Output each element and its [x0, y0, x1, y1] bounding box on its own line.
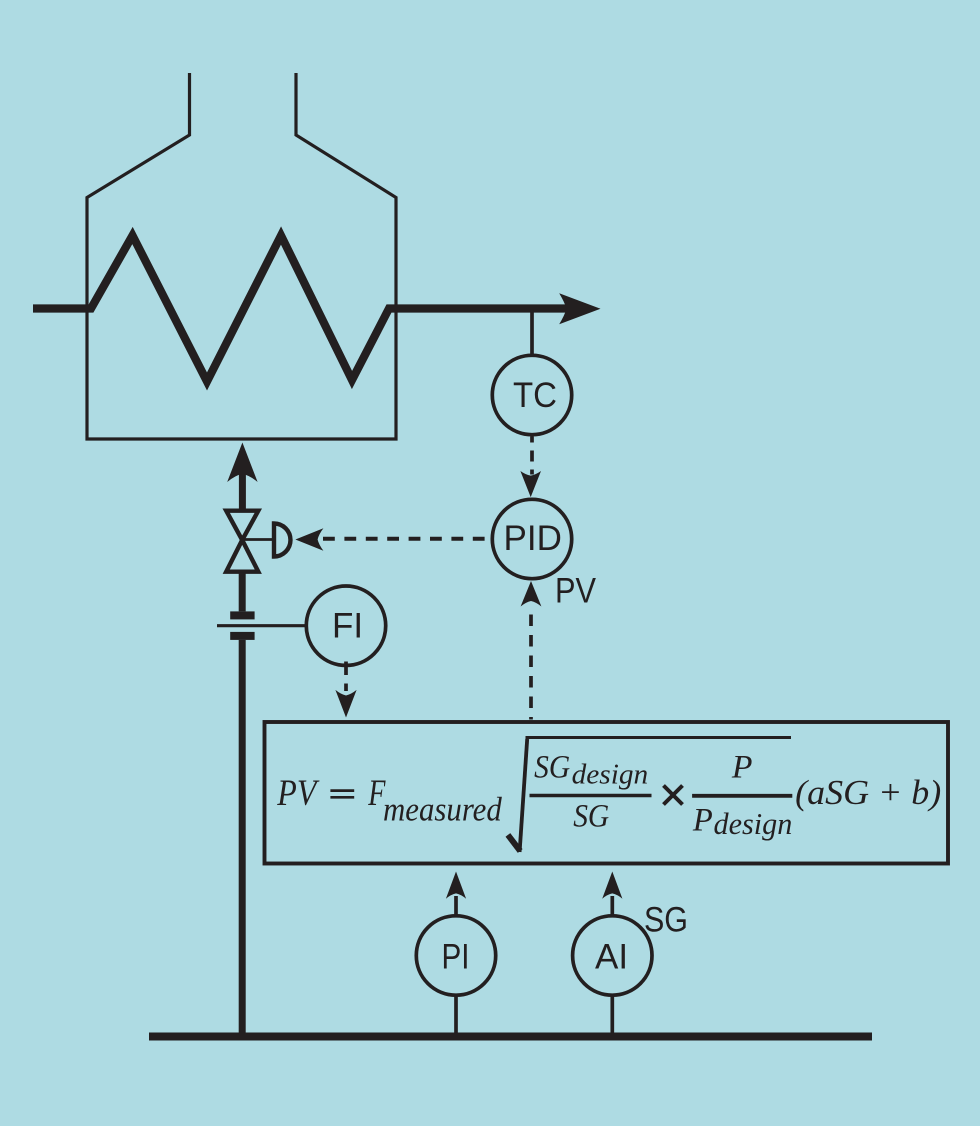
- orifice tap line to FI: [217, 624, 307, 627]
- svg-text:SG: SG: [573, 798, 609, 834]
- multiplication sign: [664, 786, 683, 805]
- instrument PID: [492, 499, 571, 578]
- bottom header pipe: [149, 1033, 872, 1041]
- pipe valve to orifice: [239, 572, 246, 611]
- svg-text:design: design: [714, 806, 793, 841]
- heater coil: [33, 236, 567, 382]
- wire AI to header: [610, 995, 614, 1036]
- equation box: [265, 722, 949, 864]
- dashed signal PID to valve: [295, 528, 493, 550]
- valve actuator: [243, 524, 290, 557]
- wire TC tap: [530, 309, 534, 357]
- orifice flange plates: [230, 611, 254, 640]
- svg-text:FI: FI: [332, 607, 363, 646]
- instrument TC: [492, 355, 571, 434]
- instrument FI: [306, 586, 385, 665]
- svg-text:PV: PV: [555, 572, 597, 611]
- svg-text:design: design: [572, 759, 649, 791]
- signal arrow PI to box: [446, 872, 466, 916]
- svg-text:(aSG + b): (aSG + b): [795, 773, 941, 812]
- svg-text:PID: PID: [504, 519, 562, 558]
- equation: PV = F_measured sqrt(SG_design/SG x P/P_design) (aSG + b): [276, 773, 502, 828]
- dashed signal TC to PID: [520, 437, 541, 498]
- svg-text:PI: PI: [442, 938, 470, 977]
- dashed signal FI to equation box: [335, 662, 356, 718]
- instrument AI: [573, 916, 652, 995]
- fraction P over P_design: [692, 749, 792, 841]
- control valve body: [226, 511, 258, 572]
- svg-text:P: P: [692, 802, 713, 838]
- svg-text:P: P: [731, 749, 753, 785]
- signal arrow AI to box: [602, 872, 622, 916]
- wire PI to header: [454, 995, 458, 1036]
- fraction SG_design over SG: [530, 749, 652, 834]
- svg-text:SG: SG: [644, 901, 688, 940]
- svg-text:measured: measured: [383, 791, 503, 828]
- svg-text:SG: SG: [534, 749, 570, 785]
- fuel pipe arrow into furnace: [227, 443, 257, 511]
- svg-text:AI: AI: [595, 938, 628, 977]
- svg-text:PV: PV: [276, 773, 320, 814]
- furnace vessel outline: [87, 73, 396, 439]
- instrument PI: [416, 916, 495, 995]
- outlet arrowhead: [559, 293, 600, 324]
- svg-text:TC: TC: [513, 376, 557, 415]
- dashed signal box to PID (PV): [521, 581, 542, 720]
- radical sign: [508, 738, 791, 853]
- main fuel pipe down to header: [239, 640, 246, 1037]
